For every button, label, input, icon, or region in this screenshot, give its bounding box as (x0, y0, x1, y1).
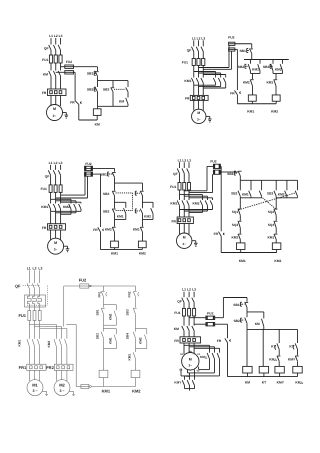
svg-text:KM2: KM2 (274, 259, 281, 263)
svg-text:SB1: SB1 (227, 172, 234, 176)
wire: QF to FU1 (51, 175, 61, 185)
svg-text:FU2: FU2 (228, 36, 234, 40)
svg-text:FR: FR (42, 91, 47, 95)
svg-text:KM2: KM2 (105, 228, 112, 232)
wire: FU1 to KM (184, 316, 194, 326)
wire: branch verticals middle (115, 196, 143, 209)
wire: FR to motor with terminals U1 W1 V1 (180, 343, 201, 356)
wire: KM2 branch feeds (194, 72, 226, 78)
wire: control taps to FU2 (56, 176, 88, 198)
svg-text:SB3: SB3 (267, 192, 273, 196)
motor M 3~ (177, 233, 192, 248)
pushbutton SB1 (stop, NC) (227, 171, 241, 176)
svg-text:QF: QF (187, 48, 192, 52)
breaker QF (3-pole) (173, 168, 189, 175)
svg-text:3~: 3~ (53, 114, 57, 118)
contactor KM1 main contacts (170, 200, 189, 205)
svg-text:KM1: KM1 (111, 252, 118, 256)
svg-text:KM2: KM2 (108, 313, 112, 320)
ground PE at motor (192, 241, 198, 247)
thermal contact FR (NC) in control (214, 232, 225, 237)
svg-text:KM: KM (43, 72, 48, 76)
auxiliary contact KM2 (self-hold) (136, 329, 147, 349)
interlock contact KM2 (NC) (105, 227, 116, 232)
svg-text:KM2: KM2 (275, 68, 282, 72)
auxiliary contact KM1 (self-hold loop) (115, 202, 126, 219)
wire: branch KM coil (246, 329, 248, 366)
svg-text:FR2: FR2 (46, 365, 54, 370)
coil KM1 (111, 241, 119, 256)
interlock contact KM2 (NC) (243, 79, 254, 86)
node rail bottom (control) with fuse (76, 384, 135, 388)
coil KM1 (236, 243, 245, 263)
fuse FU1 (3x) (174, 308, 195, 316)
wire: KM to FR (184, 331, 194, 337)
wire: coil to FR contact return (79, 104, 97, 120)
wire: control taps to FU2 risers (199, 45, 232, 69)
svg-text:SB2: SB2 (96, 333, 100, 339)
pushbutton SB2 NC contact (103, 209, 116, 214)
release contact KM2 (NO, parallel SB1) (104, 305, 117, 326)
auxiliary contact KM1 (self-hold) (104, 329, 117, 349)
wire: SB1 down to top rail (251, 54, 253, 60)
interlock contact KM1 (NC) (133, 227, 144, 232)
wire: coils to bottom rail (115, 248, 143, 250)
svg-text:KM: KM (119, 99, 124, 103)
wire: bottom rail to coil (97, 106, 99, 109)
svg-text:QF: QF (44, 46, 49, 50)
fuse FU1 (3x) (42, 55, 62, 63)
mechanical dashed link SB3 (114, 88, 125, 90)
node rail top (control) (240, 179, 297, 181)
wire: FU2 feed riser to SB1 rail (215, 298, 247, 318)
coil KM-delta (293, 366, 304, 384)
thermal contact FR (NC) in control (217, 338, 231, 343)
svg-text:FR: FR (174, 339, 179, 343)
interlock contact KM-Y (NC) (288, 356, 299, 362)
svg-text:FR: FR (230, 92, 235, 96)
svg-text:KM1: KM1 (247, 110, 254, 114)
svg-text:L3: L3 (192, 288, 196, 292)
svg-text:FR1: FR1 (98, 291, 102, 297)
coil KT (time relay) (259, 366, 268, 384)
wire: FU1 down to KM1 contacts (194, 66, 204, 78)
svg-text:L1: L1 (27, 266, 31, 270)
wire: branch verticals lower (115, 213, 143, 226)
svg-text:L2: L2 (33, 266, 37, 270)
svg-text:KM1: KM1 (266, 80, 273, 84)
wire: FR to motor (51, 230, 61, 240)
svg-text:KM2: KM2 (132, 388, 141, 393)
svg-text:SB1: SB1 (87, 72, 94, 76)
wire: KM1 to FR (180, 206, 190, 217)
mechanical dashed link SB3 (116, 193, 133, 211)
thermal contact FR (NC) in control (93, 227, 103, 232)
svg-text:SQ1: SQ1 (232, 210, 239, 214)
pushbutton SB3 (NO) (267, 191, 276, 197)
ground PE at M1 (42, 391, 48, 395)
auxiliary contact KM2 (self-hold loop) (143, 202, 154, 219)
svg-text:FU1: FU1 (174, 311, 180, 315)
svg-text:FU2: FU2 (66, 60, 72, 64)
svg-text:L3: L3 (201, 36, 205, 40)
svg-text:KM1: KM1 (170, 202, 177, 206)
wire: FR to motor (180, 224, 190, 235)
wire: branch verticals upper (115, 183, 143, 190)
svg-text:KM2: KM2 (47, 341, 51, 348)
pushbutton SB2 (fwd start, NO) (238, 64, 251, 71)
contactor KM2 main contacts (63, 204, 81, 209)
wire: coil KM1 to bottom rail (251, 101, 253, 104)
thermal contact FR2 (NC) (128, 291, 139, 297)
wire: to coil KM2 (275, 86, 277, 95)
contactor KM-Y star contacts (174, 380, 194, 385)
node rail bottom (control) (228, 376, 298, 378)
svg-text:FR: FR (70, 101, 75, 105)
auxiliary contact KM1 (self-hold) (252, 64, 260, 71)
pushbutton SB3 NC contact (jog) (103, 87, 114, 91)
wire: reversing cross connections (180, 206, 213, 213)
wire: QF to FU1 (194, 52, 204, 59)
diagram 4: limit-switch reversing - phase labels L1 L2 L3 (178, 158, 192, 162)
svg-text:QF: QF (177, 300, 182, 304)
svg-text:KM2: KM2 (139, 337, 143, 344)
coil KM1 (247, 95, 256, 114)
svg-text:3~: 3~ (182, 242, 186, 246)
wire: SB2 to bus (246, 323, 248, 329)
wire: reversing cross connections (194, 83, 226, 88)
wire: left control branch top (103, 286, 105, 291)
svg-text:KM: KM (255, 322, 260, 326)
overload relay FR (174, 337, 200, 343)
node rail bottom (control) (101, 249, 143, 251)
svg-text:KM1: KM1 (108, 337, 112, 344)
svg-text:KT: KT (262, 380, 266, 384)
svg-text:M: M (54, 241, 57, 245)
svg-text:3 ~: 3 ~ (32, 389, 37, 393)
node rail bottom of parallel branches (98, 105, 129, 107)
wire: control taps to FU2 (189, 318, 206, 325)
contactor KM2 main contacts (47, 339, 67, 347)
wire: control tap to FU2 top fuse (61, 66, 66, 68)
wire: branch KM-Y (278, 329, 280, 343)
pushbutton SB3 (rev start, NO) (263, 64, 273, 71)
node rail top (control) with fuse FU2 (64, 278, 136, 289)
auxiliary contact KM (self-hold) (255, 312, 264, 330)
wire: return from FU2 (93, 174, 101, 227)
svg-text:KM2: KM2 (139, 252, 146, 256)
pushbutton SB2 NO contact on branch2 (135, 209, 142, 214)
wire: phase drops (29, 270, 39, 283)
node rail top of parallel branches (98, 80, 129, 82)
contactor KM main contacts (174, 326, 194, 331)
wire: coil KM1 to bottom rail (103, 378, 105, 387)
wire: phase drops (51, 165, 61, 170)
ground PE at motor (64, 246, 70, 252)
limit switch SQ4 (NC) (268, 221, 278, 228)
interlock contact KM1 (NC) (267, 234, 277, 240)
svg-text:KM: KM (245, 380, 250, 384)
wire: left group verticals and join (240, 180, 261, 198)
wire: coil KM1 to bottom rail (240, 250, 242, 253)
svg-text:QF: QF (173, 172, 178, 176)
wire: return vertical with FR contact (215, 324, 228, 338)
limit switch SQ3 (NC) (232, 221, 242, 228)
svg-text:KM2: KM2 (144, 214, 151, 218)
svg-text:FR: FR (171, 219, 176, 223)
svg-text:KM1: KM1 (267, 235, 274, 239)
wire: control feed riser (63, 286, 65, 327)
wire: three phase drops to QF (51, 38, 61, 45)
wire: KM2 branch feeds (180, 195, 213, 200)
sequence contact KM1 (NO) (127, 352, 135, 360)
wire: SB4 to KM1 sequence contact (135, 338, 137, 352)
interlock contact KM2 (NC) (231, 234, 241, 240)
limit switch SQ1 (NC) (232, 209, 242, 216)
svg-text:SB1: SB1 (239, 49, 246, 53)
svg-text:KMY: KMY (277, 380, 285, 384)
svg-text:SB3: SB3 (103, 192, 110, 196)
svg-text:KM1: KM1 (102, 388, 111, 393)
pushbutton SB2 (run, NO) (87, 87, 98, 92)
svg-text:3~: 3~ (188, 363, 192, 367)
motor M2 3~ (54, 380, 70, 396)
fuse FU2 (2x, control) (85, 162, 93, 176)
svg-text:M1: M1 (32, 382, 38, 387)
ground PE at M2 (69, 391, 75, 395)
svg-text:FU1: FU1 (41, 187, 47, 191)
svg-text:3~: 3~ (197, 118, 201, 122)
auxiliary contact KM2 (self-hold) (275, 64, 283, 71)
svg-text:M: M (53, 107, 56, 111)
pushbutton SB1 (stop, NC) (239, 49, 252, 54)
wire: FU1 to KM1 (51, 192, 61, 203)
wire: left branch below SB2 (97, 81, 99, 107)
wire: FU2 to SB1 (235, 44, 252, 48)
diagram 5: two-motor sequence control - phase labels L1 L2 L3 (27, 266, 43, 270)
wire: to coil KM2 (135, 359, 137, 371)
wire: FR to motor (194, 100, 204, 110)
wire: SB1 to node rail (97, 76, 99, 80)
mechanical dashed link SQ1 (239, 193, 296, 210)
wire: FR to motor (51, 96, 61, 107)
wire: SB2 branch verticals (250, 60, 252, 74)
pushbutton SB1 (stop, NC) (87, 71, 99, 76)
wire: KM2 branch feeds (51, 199, 81, 203)
node rail bottom (control) (221, 252, 276, 254)
wire: delta feeds from phases (184, 345, 220, 352)
wire: FR1 to SB1 (103, 297, 105, 308)
overload relay FR (42, 224, 66, 230)
svg-text:KM1: KM1 (184, 79, 191, 83)
svg-text:L3: L3 (59, 161, 63, 165)
svg-text:L3: L3 (38, 266, 42, 270)
wire: FU1 to KM1 (29, 321, 39, 339)
svg-text:KM△: KM△ (295, 380, 303, 384)
pushbutton SB2 (start M1, NO) (96, 332, 104, 339)
wire: delta returns to motor terminals (181, 359, 220, 376)
svg-text:KM: KM (95, 122, 100, 126)
pushbutton SB2 (start, NO) (233, 318, 247, 324)
svg-text:KM△: KM△ (269, 358, 277, 362)
svg-text:L2: L2 (187, 288, 191, 292)
contactor KM1 main contacts (18, 339, 40, 346)
limit switch SQ2 (NC) (268, 209, 278, 216)
svg-text:KM1: KM1 (239, 259, 246, 263)
wire: coil KM2 to bottom rail (276, 250, 278, 253)
wire: FR to bottom rail (220, 236, 222, 252)
svg-text:QF: QF (15, 283, 21, 288)
svg-text:L2: L2 (197, 36, 201, 40)
fuse FU1 (3x) (41, 185, 63, 193)
svg-text:SB3: SB3 (126, 309, 130, 315)
svg-text:KM2: KM2 (243, 80, 250, 84)
diagram 3: reversing starter w/ double interlock - phase labels L1 L2 L3 (49, 161, 63, 165)
wire: FR to bottom rail (100, 232, 102, 250)
svg-text:KM1: KM1 (117, 214, 124, 218)
coil KM (93, 109, 101, 127)
svg-text:KM2: KM2 (63, 205, 70, 209)
svg-text:SB2: SB2 (87, 87, 94, 91)
thermal contact FR (NC) in control (230, 90, 240, 95)
fuse FU1 (3x) (18, 311, 41, 321)
svg-text:M: M (197, 111, 200, 115)
auxiliary contact KM1 (self-hold) (242, 191, 251, 197)
contactor KM-delta contacts (200, 353, 220, 359)
node for self-hold branch (247, 311, 264, 313)
svg-text:QF: QF (45, 174, 50, 178)
coil KM2 (272, 243, 281, 263)
svg-text:L2: L2 (182, 158, 186, 162)
svg-text:SB4: SB4 (126, 333, 130, 339)
coil KM2 (138, 241, 146, 256)
svg-text:M: M (189, 357, 192, 361)
svg-text:KM: KM (174, 327, 179, 331)
svg-text:KM2: KM2 (231, 235, 238, 239)
svg-text:KM2: KM2 (271, 110, 278, 114)
svg-text:FU1: FU1 (170, 185, 176, 189)
pushbutton SB1 (stop, NC) (96, 308, 105, 316)
svg-text:L3: L3 (59, 34, 63, 38)
diagram 6: star-delta starter - phase labels L1 L2 L3 (182, 288, 196, 292)
svg-text:SB1: SB1 (100, 173, 107, 177)
pushbutton SB3 (stop M2, NC) (126, 308, 137, 316)
wire: right group verticals and join (276, 180, 297, 198)
wire: FU1 to KM contacts (51, 63, 61, 71)
contactor KM2 main contacts (193, 200, 213, 205)
breaker QF (3-pole with link) (15, 283, 40, 288)
contactor KM main contacts (43, 71, 61, 76)
pushbutton SB3 NO contact (jog) (126, 87, 128, 91)
interlock contact KM1 (NC) (266, 79, 277, 86)
pushbutton SB3 NO contact on branch2 (135, 191, 143, 196)
fuse FU2 (2x, control) (65, 60, 74, 74)
contactor KM1 main contacts (41, 204, 60, 209)
pushbutton SB2 (NO) (231, 191, 240, 197)
svg-text:SB3: SB3 (103, 87, 110, 91)
wire: return vertical from FU2 (219, 166, 222, 231)
svg-text:FR: FR (93, 228, 98, 232)
wire: SB2 to coil KM1 (103, 338, 105, 370)
wire: star point connections (185, 370, 195, 391)
contactor KM1 main contacts (184, 78, 203, 83)
svg-text:FR: FR (185, 97, 190, 101)
svg-text:FR2: FR2 (128, 291, 132, 297)
svg-text:SQ3: SQ3 (232, 223, 239, 227)
wire: branch2 join (273, 74, 283, 80)
svg-text:FR: FR (214, 232, 219, 236)
svg-text:KM△: KM△ (200, 355, 208, 359)
svg-text:FU2: FU2 (85, 162, 91, 166)
wire: branch KM-delta (297, 329, 299, 343)
ground PE at motor (206, 116, 212, 122)
svg-text:KM1: KM1 (242, 193, 249, 197)
svg-text:SB2: SB2 (103, 209, 110, 213)
svg-text:FU1: FU1 (42, 58, 48, 62)
wire: FR1 to M1, FR2 to M2 (29, 370, 67, 381)
wire: right branch vertical (127, 81, 129, 98)
ground PE at motor (63, 113, 69, 119)
wire: QF to trip box (29, 289, 39, 295)
fuse FU2 (2x, control) (206, 312, 215, 327)
svg-text:M: M (183, 235, 186, 239)
svg-text:FR1: FR1 (19, 365, 27, 370)
svg-text:SB2: SB2 (238, 65, 245, 69)
wire: KM1 to FR (194, 83, 204, 96)
svg-text:FU2: FU2 (210, 160, 216, 164)
wire: return riser (66, 325, 76, 387)
wire: to coil KM1 (252, 86, 254, 95)
svg-text:FU1: FU1 (18, 313, 26, 318)
svg-text:L2: L2 (54, 161, 58, 165)
svg-text:SB1: SB1 (96, 309, 100, 315)
auxiliary contact KM2 (self-hold) (278, 191, 287, 197)
wire: FU2 to SB1 (220, 171, 226, 173)
wire: coil KM2 to bottom rail (135, 378, 137, 387)
wire: right control branch top (135, 286, 137, 291)
overload relay FR1 (19, 364, 46, 370)
wire: SB1 to top rail (note horizontal contact feed) (226, 172, 240, 180)
pushbutton SB4 (start M2, NO) (126, 332, 136, 339)
svg-text:KMY: KMY (174, 380, 182, 384)
overload relay FR (42, 89, 66, 96)
wire: middle branch vertical (112, 81, 114, 107)
breaker QF (3-pole) (44, 45, 61, 50)
coil KM2 (271, 95, 280, 114)
svg-text:KM1: KM1 (41, 205, 48, 209)
fuse FU1 (3x) (182, 59, 205, 66)
motor M 3~ (47, 105, 63, 121)
wire: phase drops (184, 292, 194, 298)
svg-text:FR: FR (217, 339, 222, 343)
coil KM2 (131, 370, 141, 393)
svg-text:L2: L2 (54, 34, 58, 38)
node rail bus (control) (247, 328, 298, 330)
coil KM-Y (275, 366, 285, 384)
limit switch SQ2 NO contact (left group) (259, 191, 261, 197)
wire: FR2 to SB3 (135, 297, 137, 308)
diagram 1: jog/run starter - phase labels L1 L2 L3 (49, 34, 63, 38)
auxiliary contact KM (self-hold, NO) (119, 98, 128, 104)
svg-text:FU2: FU2 (79, 278, 87, 283)
wire: branch KT coil (262, 329, 264, 366)
svg-text:KM1: KM1 (127, 354, 131, 361)
timed contact KT (NO, delay-close) (289, 343, 297, 349)
svg-text:3~: 3~ (54, 248, 58, 252)
overload relay FR (171, 217, 193, 224)
wire: right branch to bottom rail (127, 104, 129, 106)
contactor KM2 main contacts (213, 78, 225, 83)
